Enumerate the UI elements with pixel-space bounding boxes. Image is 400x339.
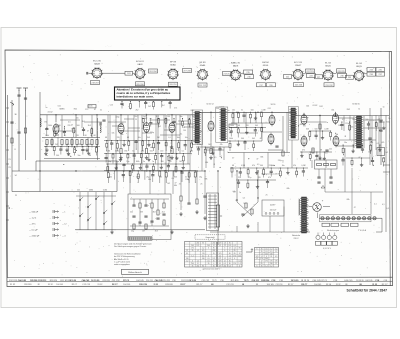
svg-text:47: 47 [175,182,177,184]
svg-text:72 73: 72 73 [244,280,249,282]
svg-text:240: 240 [265,258,268,260]
mid lower row 2 [236,179,276,189]
svg-text:85: 85 [213,248,215,250]
svg-text:47: 47 [232,157,234,159]
svg-text:1,2: 1,2 [275,251,277,253]
svg-text:100k: 100k [45,135,49,137]
tube row wire t5 stub [241,73,244,75]
fm cap C4 [102,120,105,121]
svg-text:10k: 10k [112,132,115,134]
svg-text:68k: 68k [205,162,208,164]
input arrow [10,102,14,105]
legend row 1 note [62,212,65,214]
svg-text:C44 C45: C44 C45 [344,280,353,282]
svg-text:C61: C61 [268,108,271,110]
svg-text:240: 240 [191,245,194,247]
svg-text:0,1: 0,1 [182,151,185,153]
svg-text:2k2: 2k2 [55,144,58,146]
junction dot bus B [129,170,130,171]
svg-text:6AQ8: 6AQ8 [94,62,100,65]
svg-text:5n: 5n [388,118,390,120]
svg-text:2k2: 2k2 [192,116,195,118]
svg-text:0,5: 0,5 [207,260,209,262]
pt winding left [299,199,300,215]
junction dot [96,114,97,115]
svg-text:5n: 5n [187,179,189,181]
svg-text:1,2: 1,2 [275,249,277,251]
IF transformer T2 outline [216,107,228,143]
out cap C22 [325,150,328,151]
phase cap C33 [241,214,244,215]
socket plug 4 [333,233,337,240]
left resistor R1 [11,138,13,143]
svg-text:5n: 5n [227,152,229,154]
junction dot bus B [149,170,150,171]
svg-text:500: 500 [315,128,318,130]
tube V5 box left [223,72,232,76]
passive row 2 components [104,153,192,164]
heater boxes below [322,223,358,226]
bus B hanging components [107,170,196,183]
svg-text:7 V 0,3 A: 7 V 0,3 A [358,229,366,232]
legend row 3 note [62,224,67,226]
socket plug 2 [322,233,326,240]
fm wire tall [97,118,99,160]
passive row 3 components [106,163,190,173]
bottom strip row1 labels [9,279,387,282]
tube V4 label [200,62,207,67]
svg-text:0,5: 0,5 [325,152,328,154]
svg-text:104 105: 104 105 [267,284,275,286]
svg-text:85: 85 [229,253,231,255]
svg-text:88: 88 [256,284,258,286]
svg-text:Mittlere Ansicht: Mittlere Ansicht [128,271,142,274]
svg-text:0,5M: 0,5M [301,165,305,167]
svg-text:1,2: 1,2 [261,253,263,255]
tube V5 box right2 [245,75,254,79]
svg-text:25: 25 [179,184,181,186]
dial lamp LP5 [342,217,345,220]
svg-text:6: 6 [224,250,225,252]
svg-text:0,5: 0,5 [224,263,226,265]
svg-text:240: 240 [196,243,199,245]
svg-text:Gemessen mit Röhrenvoltmeter: Gemessen mit Röhrenvoltmeter [114,252,141,255]
warning note text [117,87,171,98]
top bus wire mid [197,111,296,113]
if tube V12 cathode resistor [145,149,147,154]
svg-text:240: 240 [207,245,210,247]
svg-text:31 32: 31 32 [10,284,16,286]
IF transformer T1 [193,112,201,144]
left wire b [11,100,13,192]
svg-text:170: 170 [256,256,259,258]
svg-text:35: 35 [261,249,263,251]
left cap C1 [10,122,13,123]
mains inner [265,204,279,214]
svg-text:10n: 10n [177,137,180,139]
left resistor R2 [24,128,26,133]
svg-text:C = pF sofern nicht: C = pF sofern nicht [114,261,130,264]
tube V8 box left [315,75,323,79]
svg-text:2k2: 2k2 [162,105,165,107]
svg-text:R12 R13: R12 R13 [9,280,18,282]
svg-text:207 208: 207 208 [183,71,191,73]
tube V6 box below2 [267,83,276,87]
svg-text:Die Gleichspannungen gegen Cha: Die Gleichspannungen gegen Chassis [114,246,146,248]
left wire d [25,90,27,160]
voltage table C [255,248,279,268]
svg-text:— 1: — 1 [62,212,65,214]
border frame outer [5,50,393,287]
svg-text:47k: 47k [67,144,70,146]
svg-text:222 223: 222 223 [306,71,314,73]
svg-text:6: 6 [256,249,257,251]
svg-text:R25 R26: R25 R26 [261,280,270,282]
svg-text:2k2: 2k2 [136,110,139,112]
tube row wire t9 stub [364,73,367,75]
svg-text:0,5: 0,5 [234,245,236,247]
phase ground [246,224,249,228]
tube V1 label [93,61,101,66]
svg-text:courre de ce schéma, il y a d': courre de ce schéma, il y a d'importante… [117,91,171,95]
svg-text:35: 35 [213,253,215,255]
svg-text:5n: 5n [132,151,134,153]
legend row 5 text [29,236,40,238]
tube row wire t1-box [102,72,135,74]
svg-text:85: 85 [239,248,241,250]
heater chain end wire [376,218,382,232]
svg-text:170: 170 [219,266,222,268]
out mid wires [310,116,330,161]
tube V3 label [170,62,177,67]
svg-text:18 19 20: 18 19 20 [291,280,300,282]
pot wire [217,171,219,245]
left coil L1 [40,118,41,127]
bus B hanging values [108,177,202,179]
junction dot bus B [196,170,197,171]
tone ground 2 [170,230,173,234]
out tube V18 [333,112,339,125]
mid lower row 1 [230,167,308,177]
junction dot [146,114,147,115]
svg-text:500: 500 [241,138,244,140]
svg-text:0,1: 0,1 [144,125,147,127]
top bus wire left [40,114,197,116]
phase dot 2 [257,197,258,198]
svg-text:170: 170 [265,261,268,263]
svg-text:R7 C3: R7 C3 [322,280,327,282]
svg-text:0,1: 0,1 [235,200,238,202]
svg-text:31 32: 31 32 [372,284,377,286]
svg-text:2k2: 2k2 [144,118,147,120]
tube V4 box below [198,83,207,87]
svg-text:170: 170 [233,255,236,257]
tube socket V9 top view [353,70,365,82]
svg-text:10n: 10n [185,137,188,139]
svg-text:6: 6 [192,260,193,262]
fm ground 1 [45,148,48,152]
svg-text:68: 68 [320,149,322,151]
svg-text:240: 240 [212,250,215,252]
svg-text:209 210: 209 210 [169,84,177,86]
svg-text:6AJ8: 6AJ8 [138,63,144,66]
tone block caps [132,205,165,223]
heater chain wire [319,217,382,219]
tube V8 box below [324,83,334,87]
svg-text:0,5M: 0,5M [261,109,265,111]
svg-text:44 45: 44 45 [87,106,93,108]
antenna symbol 2 [23,88,28,99]
tube V8 box right2 [338,73,347,77]
left cap C2 [17,132,20,133]
svg-text:210 211: 210 211 [252,280,260,282]
if tube V14 ground [209,156,212,160]
svg-text:12: 12 [229,248,231,250]
if tube V12 drop wire [146,115,148,121]
mid vertical wires [110,115,188,164]
svg-text:3k3: 3k3 [153,212,156,214]
heater chain box [320,215,372,222]
svg-text:54 55: 54 55 [220,106,225,108]
output transformer T4 [355,116,363,148]
svg-text:1,2: 1,2 [224,245,226,247]
svg-text:0,1: 0,1 [342,119,345,121]
lower resistor R51 [196,171,198,204]
svg-text:35: 35 [261,266,263,268]
svg-text:1,2: 1,2 [261,256,263,258]
dial lamp LP6 [347,217,350,220]
bottom right bus [210,231,310,233]
svg-text:5n: 5n [243,203,245,205]
svg-text:228 229: 228 229 [337,71,345,73]
svg-text:55 56: 55 56 [326,284,332,286]
svg-text:C12 C13: C12 C13 [82,284,91,286]
svg-text:100k: 100k [230,125,234,127]
svg-text:47k: 47k [220,144,223,146]
legend row 5 symbol [53,234,59,237]
junction dot bus B [164,170,165,171]
svg-text:5n: 5n [152,161,154,163]
legend row 1 symbol [53,210,59,213]
svg-text:R12 R13: R12 R13 [181,280,188,282]
tone feed line [172,171,174,194]
svg-text:100k: 100k [48,125,52,127]
scan smudges above frame [105,44,171,48]
svg-text:— 47 k: — 47 k [29,224,37,226]
svg-text:3k3: 3k3 [208,144,211,146]
dial lamp LP3 [331,217,334,220]
right section components [340,121,385,131]
tube V8 box right [337,69,346,73]
under-warning components [120,101,171,110]
svg-text:5n: 5n [46,155,48,157]
tube V7 box left [284,75,292,79]
speaker box [315,160,338,169]
tube socket V8 top view [322,69,334,81]
svg-text:0,1: 0,1 [156,116,159,118]
svg-text:240: 240 [212,243,215,245]
svg-text:C18: C18 [384,280,387,282]
svg-text:0,5: 0,5 [68,121,71,123]
tube socket V1 top view [91,67,103,79]
junction dot bus B [39,170,40,171]
svg-text:Alle Werte ±10 %: Alle Werte ±10 % [114,258,129,261]
out drop wire a [303,113,305,116]
phase dot 1 [236,199,237,200]
heater chain labels [327,229,367,232]
svg-text:2k2: 2k2 [162,212,165,214]
svg-text:205 206: 205 206 [136,84,144,86]
tube V9 box right3 [367,72,376,76]
svg-text:218 219: 218 219 [91,83,99,85]
svg-text:R42: R42 [216,108,219,110]
tube V1 box below [91,81,100,85]
legend row 4 text [29,230,38,232]
svg-text:C44 C45: C44 C45 [18,279,27,282]
svg-text:35: 35 [208,263,210,265]
svg-text:220p: 220p [56,126,60,128]
svg-text:1,2: 1,2 [256,258,258,260]
svg-text:12: 12 [224,260,226,262]
if tube V11 [118,122,124,135]
top bus label row [45,105,384,113]
svg-text:10k: 10k [71,129,74,131]
svg-text:25µ: 25µ [131,231,134,233]
svg-text:3k3: 3k3 [155,231,158,233]
svg-text:170: 170 [270,261,273,263]
svg-text:68: 68 [105,137,107,139]
svg-text:31 32: 31 32 [154,284,158,286]
svg-text:240: 240 [223,266,226,268]
avc loop wire bottom [12,191,117,193]
dial lamp LP9 [363,217,366,220]
if tube V12 [144,121,150,134]
tube socket V7 top view [292,69,304,81]
phase resistor R54 [251,209,253,214]
svg-text:47k: 47k [293,165,296,167]
svg-text:R25 R26: R25 R26 [103,280,110,282]
svg-text:104 105: 104 105 [314,284,321,286]
tone ground 1 [110,230,113,234]
fm ground 2 [65,148,68,152]
if tube V11 cathode wire [120,135,122,148]
tone block values [130,212,165,233]
svg-text:2k2: 2k2 [158,126,161,128]
avc loop wire left [35,161,37,171]
svg-text:35: 35 [202,243,204,245]
dial lamp LP7 [352,217,355,220]
svg-text:88: 88 [211,284,213,286]
svg-text:47k: 47k [252,165,255,167]
svg-text:5n: 5n [143,161,145,163]
note text block 1 [114,242,152,248]
right section row 2 [342,144,382,154]
fm resistor R5 [61,140,63,148]
svg-text:6: 6 [234,258,235,260]
tube socket V2 top view [134,68,146,80]
svg-text:10k: 10k [351,127,354,129]
svg-text:6: 6 [239,266,240,268]
top bus step wire 2 [295,112,297,115]
svg-text:240: 240 [265,253,268,255]
svg-text:100k: 100k [357,142,361,144]
mid lower verticals [244,140,326,168]
tube V9 box right [367,68,376,72]
svg-text:12: 12 [213,245,215,247]
svg-text:1,2: 1,2 [191,255,193,257]
svg-text:– ··– –·: – ··– –· [105,46,112,48]
voltage table A [185,242,217,268]
bottom strip top line [7,276,392,278]
mains box [262,200,284,216]
mid top labels [206,104,359,109]
svg-text:C12 C13: C12 C13 [226,284,233,286]
rect wires [309,207,330,219]
svg-text:anders angegeben: anders angegeben [114,263,130,266]
texture dots [63,117,380,168]
lower ground row [179,210,206,220]
legend row 3 symbol [53,222,59,225]
rectifier bridge D1 [313,200,324,212]
pt label [292,234,301,240]
svg-text:· –– ·: · –– · [140,44,145,46]
svg-text:104: 104 [306,105,309,107]
svg-text:35: 35 [192,266,194,268]
tube V9 box left [346,75,354,79]
svg-text:R7 C3: R7 C3 [123,280,130,282]
svg-text:36: 36 [15,114,17,116]
svg-text:0,5: 0,5 [265,251,267,253]
if tube V12 ground [145,156,148,160]
svg-text:104 105: 104 105 [56,284,62,286]
bottom strip row2 labels [10,284,388,286]
svg-text:2k2: 2k2 [130,212,133,214]
dial lamp LP2 [326,217,329,220]
svg-text:240: 240 [270,263,273,265]
svg-text:— 1,2 k: — 1,2 k [29,218,37,220]
junction dot [171,114,172,115]
svg-text:500: 500 [251,109,254,111]
svg-text:500: 500 [150,151,153,153]
svg-text:85: 85 [229,263,231,265]
svg-text:12: 12 [275,263,277,265]
tube V2 box below [136,82,145,86]
svg-text:35: 35 [270,256,272,258]
svg-text:C31 C32: C31 C32 [112,280,121,282]
tube V3 box right [183,69,192,73]
lower cap C31 [203,171,206,214]
dial lamp LP11 [373,217,376,220]
svg-text:170: 170 [219,253,222,255]
svg-text:3k3: 3k3 [147,137,150,139]
socket plug label 1 [315,241,320,245]
passive bottom bus [104,170,196,172]
fm resistor R11 [91,140,93,148]
svg-text:C15: C15 [110,105,113,107]
svg-text:240: 240 [186,258,189,260]
svg-text:170: 170 [219,243,222,245]
passive row 1 components [104,140,196,151]
svg-text:210 211: 210 211 [163,280,170,282]
svg-text:2k2: 2k2 [333,142,336,144]
svg-text:10k: 10k [56,135,59,137]
junction dot [75,114,76,115]
tube V9 label [356,63,362,68]
svg-text:0,1: 0,1 [180,134,183,136]
tone feed wires [130,171,165,194]
svg-text:1,2: 1,2 [234,248,236,250]
right cap C25 [379,130,382,131]
